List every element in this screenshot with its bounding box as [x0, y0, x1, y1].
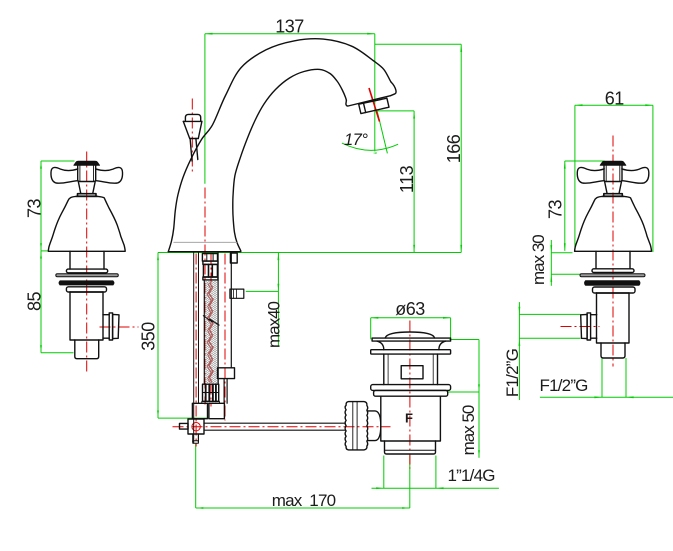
- RV body: [597, 293, 630, 343]
- arrow 17 arc left tick: [373, 152, 377, 153]
- RV bell top edge: [602, 195, 624, 197]
- arrow max30 bottom (outside, pointing up): [550, 274, 552, 282]
- dia63 right extension: [450, 318, 452, 340]
- RV bell: [575, 196, 652, 251]
- RV washer plate: [593, 287, 636, 293]
- LV right arm: [96, 167, 123, 183]
- RV tail: [601, 343, 625, 358]
- arrow max40 top: [278, 253, 280, 261]
- dim 137 right extension: [374, 34, 376, 152]
- knob base line: [190, 138, 199, 140]
- arrow 73R top: [564, 161, 566, 169]
- shank nut facets: [207, 254, 213, 262]
- RV left arm: [577, 167, 604, 183]
- deck reference line: [158, 252, 461, 254]
- coupling nut ridges: [353, 402, 357, 450]
- LV body top line: [70, 291, 103, 293]
- arrow 350 top: [157, 253, 159, 261]
- RV chamfer ring: [592, 269, 634, 273]
- pull rod lower: [224, 379, 227, 404]
- seat stub right: [230, 253, 237, 263]
- dim 137 line: [205, 33, 375, 35]
- elbow block left: [192, 403, 207, 418]
- pivot left stub: [180, 423, 189, 429]
- arrow 350 bottom: [157, 411, 159, 419]
- spout base joint line: [174, 241, 237, 243]
- dim 61 right extension: [652, 105, 654, 252]
- hose top washer: [203, 261, 218, 264]
- LV body: [70, 292, 103, 340]
- max30 bottom extension: [551, 273, 580, 275]
- LV hub inner lines: [80, 166, 94, 182]
- dim 61 line: [575, 104, 653, 106]
- RV collar: [603, 194, 623, 197]
- 1-1/4G left extension: [383, 456, 385, 489]
- svg-text:166: 166: [444, 134, 464, 163]
- hose top hex: [203, 264, 217, 277]
- coupling nut: [345, 402, 368, 450]
- svg-text:1”1/4G: 1”1/4G: [448, 466, 495, 485]
- spout outer curve: [168, 39, 391, 252]
- tailpiece: [385, 441, 436, 454]
- elbow block right: [209, 403, 225, 418]
- RV right arm: [622, 167, 649, 183]
- dim 85 bottom extension: [41, 352, 74, 354]
- F1/2G right label line vertical: [518, 302, 520, 400]
- aerator axis red line: [369, 88, 380, 122]
- arrow max170 left: [196, 507, 204, 509]
- left valve outlet centerline: [100, 326, 139, 328]
- F1/2G bottom left extension: [601, 358, 603, 397]
- drain flange-top extension: [449, 339, 479, 341]
- arrow 137 right: [367, 33, 375, 35]
- svg-text:max40: max40: [265, 301, 284, 348]
- drain vertical centerline: [409, 321, 411, 469]
- svg-text:137: 137: [275, 17, 304, 37]
- max40 lower extension: [246, 290, 279, 292]
- max50 upper extension: [448, 391, 479, 393]
- LV left arm: [51, 167, 78, 183]
- LV outlet stub: [103, 315, 109, 339]
- pivot square: [188, 419, 204, 434]
- 17deg ray: [377, 111, 387, 153]
- pop-up rod lines: [194, 253, 199, 444]
- hose break mark: [203, 316, 219, 325]
- LV neck tube: [70, 251, 104, 269]
- LV collar: [77, 194, 97, 197]
- dim max170 line: [196, 507, 410, 509]
- svg-text:F1/2”G: F1/2”G: [503, 349, 522, 397]
- arrow dia63 left: [371, 317, 379, 319]
- LV bell top edge: [76, 195, 98, 197]
- 17deg arc: [342, 143, 398, 150]
- knob taper body: [183, 121, 202, 138]
- LV outlet cap outer: [113, 314, 119, 338]
- RV body top line: [597, 292, 630, 294]
- hose end fitting split: [203, 392, 219, 394]
- tail thread line: [385, 449, 436, 451]
- dim 166 top extension: [375, 43, 461, 45]
- RV neck tube: [596, 251, 630, 268]
- nut-to-drain stub: [367, 411, 381, 441]
- dim max40 line: [277, 253, 279, 347]
- clamp screw lines: [234, 289, 237, 298]
- RV hub front arm: [604, 165, 622, 181]
- spout vertical centerline: [204, 188, 206, 405]
- plug dome: [385, 332, 434, 338]
- LV mounting flange (gray): [56, 274, 119, 277]
- left valve vertical centerline: [86, 152, 88, 372]
- svg-text:85: 85: [25, 292, 45, 312]
- arrow F12G bottom right (outside pointing left): [626, 396, 634, 398]
- dim 73 right line: [564, 161, 566, 251]
- LV outlet cap plate: [109, 313, 112, 340]
- lower body: [381, 396, 441, 441]
- svg-text:350: 350: [139, 322, 159, 351]
- dim 61 left extension: [574, 105, 576, 252]
- svg-text:73: 73: [546, 200, 566, 220]
- adjuster block: [218, 368, 235, 379]
- svg-text:ø63: ø63: [395, 299, 425, 319]
- arrow 166 top: [460, 44, 462, 52]
- arrow 85 bottom: [40, 345, 42, 353]
- arrow dia63 right: [443, 317, 451, 319]
- max170 right extension: [409, 456, 411, 509]
- upper washer: [371, 350, 451, 354]
- arrow 73R bottom: [564, 243, 566, 251]
- dim 137 left extension: [204, 34, 206, 184]
- LV tail: [75, 340, 99, 359]
- dim 73 left line: [40, 161, 42, 251]
- F1/2G bottom dim line: [540, 396, 673, 398]
- arrow 137 left: [205, 33, 213, 35]
- rod below pivot: [193, 434, 199, 442]
- knob stem: [190, 139, 198, 162]
- RV handle cap (filled black): [600, 161, 626, 165]
- arrow max50 top: [478, 384, 480, 392]
- hose braid fill: [205, 281, 217, 383]
- pull tube left wall lower: [217, 368, 219, 384]
- pop-up rod centerline: [195, 254, 197, 447]
- aerator inner line: [364, 103, 366, 112]
- dim 166 line: [460, 44, 462, 252]
- lever bar: [204, 423, 345, 430]
- arrow max50 bottom: [478, 450, 480, 458]
- pull tube walls: [218, 253, 231, 368]
- flange concave neck: [377, 341, 446, 350]
- LV bell: [48, 196, 125, 251]
- RV mounting flange (gray): [580, 274, 645, 277]
- arrow 113 top: [413, 111, 415, 119]
- dia63 left extension: [370, 318, 372, 340]
- hose end cap: [202, 401, 220, 403]
- arrow 61 right: [645, 104, 653, 106]
- arrow 85 top: [40, 251, 42, 259]
- dim 73 right top extension: [565, 160, 605, 162]
- right valve vertical centerline: [612, 136, 614, 367]
- knob joint line: [183, 120, 202, 122]
- hose end fitting (knurled): [203, 384, 219, 401]
- RV neck taper: [605, 182, 622, 194]
- LV hub front arm: [78, 165, 96, 181]
- dim 113 line: [413, 111, 415, 253]
- arrow F12G bottom left (outside pointing right): [594, 396, 602, 398]
- svg-text:73: 73: [25, 199, 45, 219]
- hose outer walls: [204, 281, 218, 384]
- F1/2G bottom right extension: [625, 358, 627, 397]
- pivot red circle: [192, 423, 200, 431]
- hose red braid: [207, 283, 213, 383]
- arrow 1-1/4G left (outside pointing right): [376, 487, 384, 489]
- pop-up knob centerline: [191, 99, 193, 173]
- LV neck taper: [78, 182, 95, 194]
- hose centerline: [210, 254, 212, 283]
- dim 113 top extension: [377, 110, 414, 112]
- RV hub inner lines: [606, 166, 620, 182]
- arrow 166 bottom: [460, 245, 462, 253]
- flange plate: [372, 338, 451, 341]
- spout base bottom: [168, 251, 241, 253]
- dim 350 line: [157, 253, 159, 419]
- LV handle cap (filled black): [74, 161, 100, 165]
- shank top nut: [202, 254, 217, 262]
- max170 left extension: [195, 444, 197, 508]
- dim 1-1/4G line: [372, 487, 499, 489]
- arrow max30 top (outside, pointing down): [550, 245, 552, 253]
- spout inner curve: [233, 69, 347, 251]
- hose end fitting stripes: [206, 384, 216, 401]
- svg-text:max 170: max 170: [272, 491, 336, 510]
- svg-text:113: 113: [397, 165, 417, 193]
- spout tip beak: [391, 82, 397, 96]
- aerator body: [359, 98, 389, 113]
- max30 top extension: [551, 252, 572, 254]
- arrow 113 bottom: [413, 245, 415, 253]
- spout end cap edge: [346, 96, 391, 106]
- arrow F12G right bottom (outside, pointing up): [519, 338, 521, 346]
- green arrowheads: [40, 33, 653, 509]
- arrow 73L top: [40, 161, 42, 169]
- arrow F12G right top (outside, pointing down): [519, 307, 521, 315]
- svg-text:F: F: [405, 411, 413, 426]
- dim dia63 line: [371, 317, 451, 319]
- arrow max40 bottom: [278, 284, 280, 292]
- RV gasket (black filled): [585, 281, 640, 285]
- svg-text:max 30: max 30: [529, 235, 548, 285]
- RV outlet cap plate: [587, 313, 591, 340]
- locknut lower: [374, 390, 448, 396]
- svg-text:61: 61: [605, 89, 625, 109]
- dim 73 left top extension: [41, 160, 75, 162]
- hose lower washer: [203, 277, 218, 280]
- LV gasket (black filled): [59, 281, 114, 285]
- arrow max170 right: [402, 507, 410, 509]
- locknut upper: [371, 385, 451, 391]
- dim 85 line: [40, 251, 42, 353]
- clamp screw block: [230, 289, 244, 298]
- F1/2G right ext bottom: [519, 337, 580, 339]
- arrow 61 left: [575, 104, 583, 106]
- F1/2G right ext top: [519, 313, 580, 315]
- lever horizontal centerline: [173, 426, 391, 428]
- LV chamfer ring: [66, 269, 107, 273]
- svg-text:F1/2”G: F1/2”G: [540, 376, 588, 395]
- svg-text:max 50: max 50: [459, 405, 478, 455]
- knob cap: [185, 114, 200, 121]
- svg-text:17°: 17°: [344, 131, 368, 149]
- LV washer plate: [66, 287, 106, 292]
- RV outlet cap outer: [581, 314, 587, 338]
- RV outlet stub: [591, 315, 597, 339]
- arrow 1-1/4G right (outside pointing left): [436, 487, 444, 489]
- dim max50 line: [478, 340, 480, 458]
- dim max30 line: [550, 240, 552, 286]
- mid body inner walls: [388, 354, 433, 385]
- dim 73/85 shared tick: [41, 250, 49, 252]
- dim 350 bottom extension: [158, 417, 210, 419]
- mid body walls: [384, 354, 438, 385]
- right valve outlet centerline: [561, 326, 600, 328]
- hose top hex bands: [209, 264, 213, 277]
- pull tube centerline: [224, 254, 226, 421]
- 1-1/4G right extension: [435, 456, 437, 489]
- arrow 73L bottom: [40, 243, 42, 251]
- overflow window: [401, 366, 423, 379]
- rod end cap: [193, 441, 199, 444]
